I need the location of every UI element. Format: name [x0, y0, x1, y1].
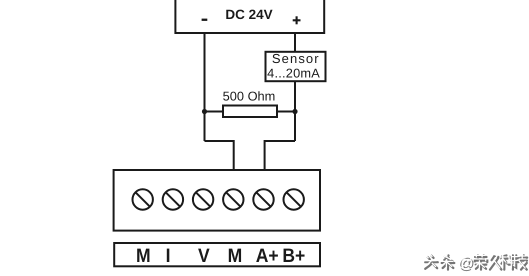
svg-text:@: @: [457, 254, 473, 271]
watermark shadow layer: [425, 255, 527, 269]
svg-text:A+: A+: [256, 245, 279, 267]
wire: sensor bottom down to node B: [294, 81, 296, 141]
screw terminal 2 (I): [163, 189, 183, 209]
terminal block body: [114, 170, 320, 231]
power supply box U0 (DC 24V, top cut off): [175, 0, 324, 33]
resistor R1 500 Ohm: [223, 106, 277, 118]
svg-text:M: M: [136, 245, 151, 267]
wire: minus terminal down to node A: [204, 33, 206, 141]
node A junction dot: [202, 109, 207, 114]
svg-text:M: M: [228, 245, 243, 267]
screw terminal 3 (V): [193, 189, 213, 209]
wire: node A to resistor left: [205, 111, 224, 113]
label - (minus terminal): [202, 19, 208, 21]
svg-text:I: I: [166, 245, 171, 267]
svg-text:500 Ohm: 500 Ohm: [223, 89, 276, 104]
wire: node A leg jog to terminal M: [205, 141, 234, 171]
svg-text:Sensor: Sensor: [272, 51, 320, 66]
node B junction dot: [292, 109, 297, 114]
sensor box (Sensor 4...20mA): [266, 52, 326, 81]
svg-text:DC 24V: DC 24V: [225, 7, 272, 22]
wire: node B leg jog to terminal A+: [265, 141, 295, 171]
svg-text:V: V: [198, 245, 210, 267]
wire: plus terminal down to sensor top: [294, 33, 296, 52]
watermark white top layer: [424, 254, 526, 268]
screw terminal 1 (M): [133, 189, 153, 209]
screw terminal 6 (B+): [284, 189, 304, 209]
screw terminal 5 (A+): [253, 189, 273, 209]
wire: resistor right to node B: [277, 111, 295, 113]
terminal label strip: [114, 243, 320, 266]
svg-text:B+: B+: [282, 245, 305, 267]
svg-text:4...20mA: 4...20mA: [267, 66, 320, 81]
screw terminal 4 (M): [223, 189, 243, 209]
label + (plus terminal): [293, 16, 301, 24]
